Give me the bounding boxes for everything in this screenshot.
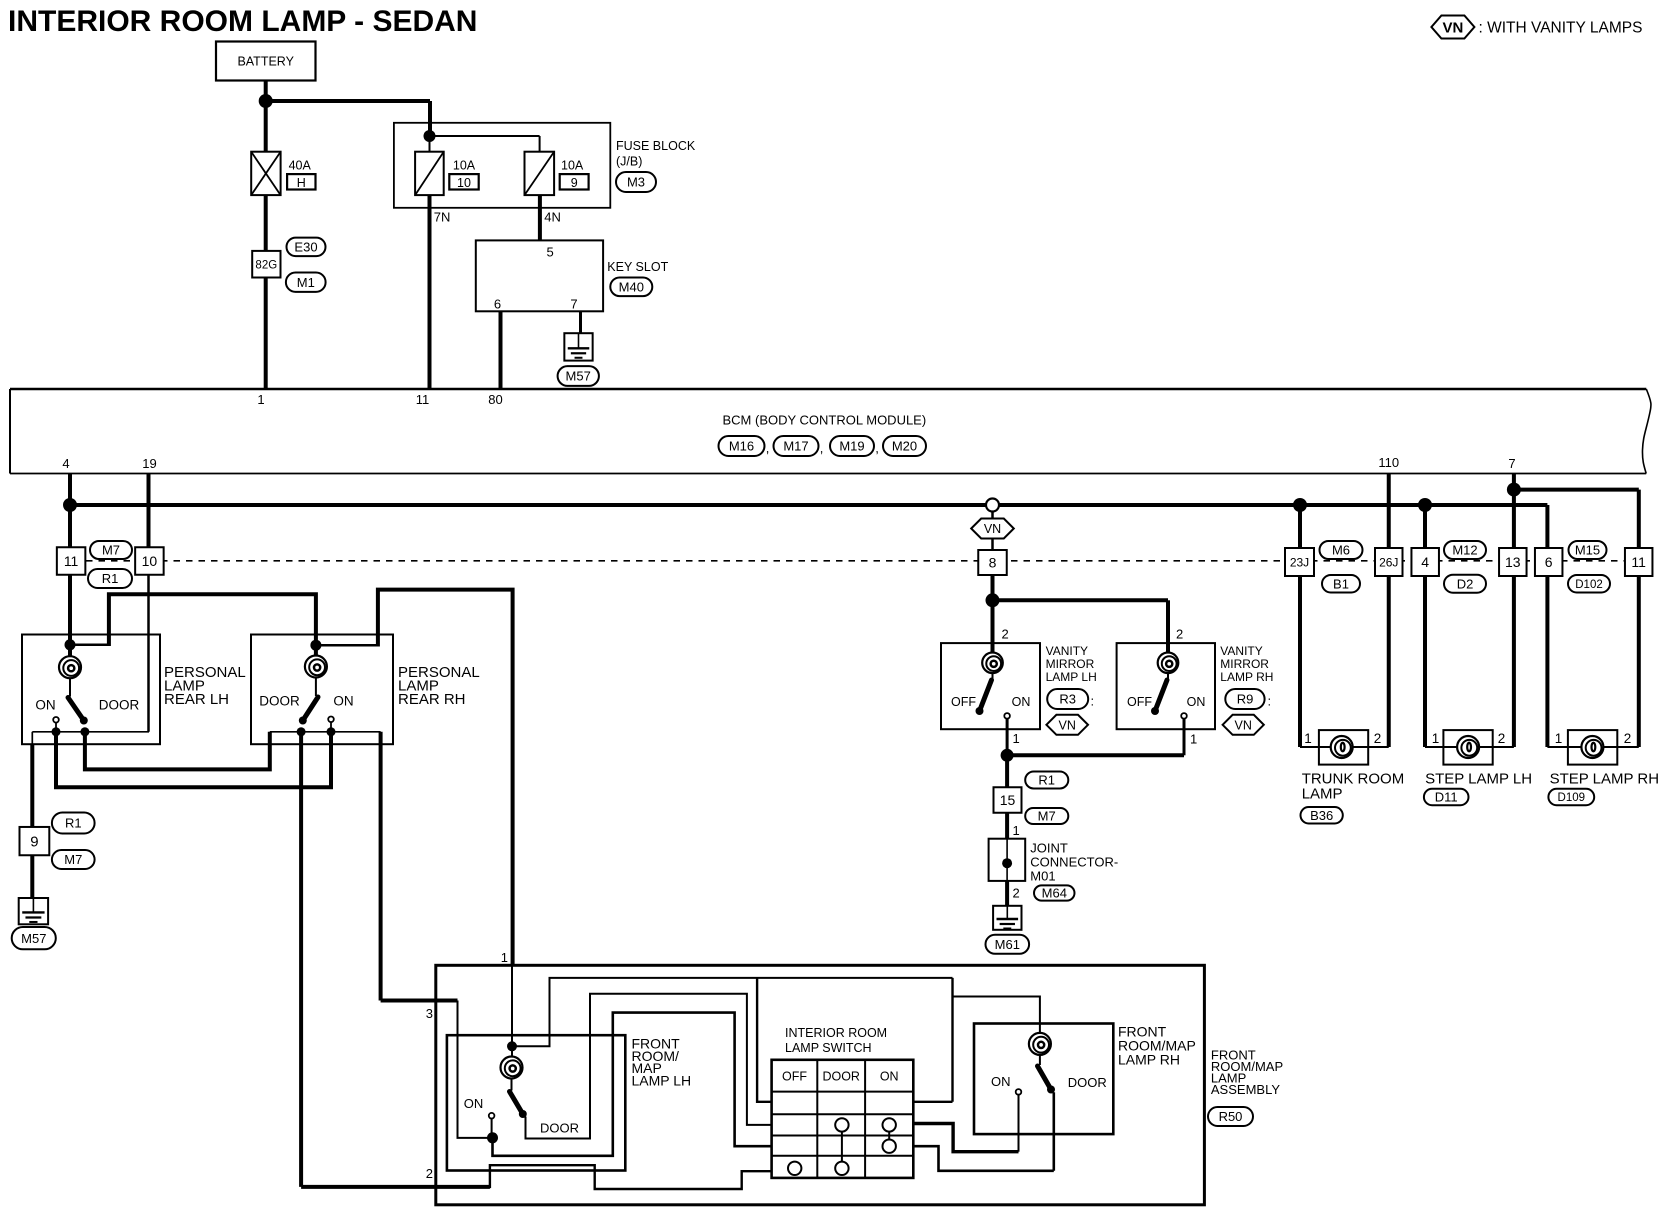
svg-text:MIRROR: MIRROR [1220,657,1269,671]
svg-text:M1: M1 [297,275,315,290]
svg-text:M3: M3 [627,175,645,190]
svg-text:M17: M17 [783,439,808,454]
svg-text:ON: ON [35,698,55,713]
svg-text:LAMP LH: LAMP LH [1046,670,1097,684]
svg-text::: : [1268,694,1272,709]
svg-text:VN: VN [984,522,1001,536]
svg-text:15: 15 [1000,792,1016,808]
svg-text:MIRROR: MIRROR [1046,657,1095,671]
svg-text:M16: M16 [729,439,754,454]
svg-text:B36: B36 [1310,808,1333,823]
svg-text:7: 7 [570,297,577,312]
svg-text:R1: R1 [65,816,82,831]
svg-text:11: 11 [1631,554,1646,570]
svg-text:10: 10 [142,553,158,569]
svg-text:M01: M01 [1030,869,1055,884]
svg-text:4N: 4N [544,210,561,225]
svg-text:M12: M12 [1452,543,1477,558]
svg-text:JOINT: JOINT [1030,841,1068,856]
svg-text:7: 7 [1508,456,1515,471]
svg-text:VN: VN [1059,718,1076,732]
svg-text:ON: ON [1187,695,1206,709]
svg-text:E30: E30 [294,239,317,254]
svg-text:9: 9 [30,834,38,851]
svg-text:OFF: OFF [1127,695,1152,709]
svg-text:1: 1 [1013,731,1020,746]
svg-text:2: 2 [1002,627,1009,642]
svg-text:R1: R1 [1038,773,1055,788]
svg-text:M7: M7 [64,852,82,867]
svg-text:13: 13 [1505,554,1521,570]
svg-text:1: 1 [1432,731,1440,746]
svg-text:ON: ON [464,1096,484,1111]
svg-text:5: 5 [547,245,554,260]
svg-text:2: 2 [1176,627,1183,642]
svg-text:(J/B): (J/B) [616,154,642,168]
svg-text:2: 2 [426,1166,433,1181]
svg-text:CONNECTOR-: CONNECTOR- [1030,855,1118,870]
svg-text:4: 4 [62,456,69,471]
svg-text:R1: R1 [102,571,119,586]
svg-text:BCM (BODY CONTROL MODULE): BCM (BODY CONTROL MODULE) [723,413,927,428]
svg-text:M57: M57 [21,931,46,946]
svg-text:M64: M64 [1042,886,1067,901]
svg-text:LAMP SWITCH: LAMP SWITCH [785,1041,872,1055]
svg-text:M20: M20 [892,439,917,454]
svg-text:10: 10 [457,176,471,190]
svg-text:M40: M40 [619,279,644,294]
svg-text:M7: M7 [1038,809,1056,824]
svg-text:FUSE BLOCK: FUSE BLOCK [616,139,696,153]
svg-text:110: 110 [1378,455,1399,470]
svg-text:VN: VN [1235,718,1252,732]
svg-text:H: H [297,176,306,190]
svg-text:REAR RH: REAR RH [398,691,466,708]
svg-text:R50: R50 [1219,1109,1243,1124]
svg-text:LAMP RH: LAMP RH [1118,1051,1180,1067]
svg-text:M61: M61 [995,937,1020,952]
svg-text:19: 19 [142,456,156,471]
svg-text:11: 11 [416,392,430,407]
svg-text:DOOR: DOOR [259,694,300,709]
svg-text:40A: 40A [289,159,312,173]
svg-text:1: 1 [1013,823,1020,838]
svg-text:D102: D102 [1575,579,1603,591]
svg-text:LAMP RH: LAMP RH [1220,670,1273,684]
svg-text:M57: M57 [566,369,591,384]
svg-text:ON: ON [991,1074,1011,1089]
svg-text:OFF: OFF [782,1069,807,1083]
svg-text:DOOR: DOOR [99,698,140,713]
svg-text:D11: D11 [1435,790,1458,805]
svg-text:9: 9 [571,176,578,190]
svg-text:26J: 26J [1379,555,1398,569]
svg-text:STEP LAMP RH: STEP LAMP RH [1550,770,1659,787]
svg-text:D2: D2 [1457,576,1474,591]
svg-text:10A: 10A [561,159,584,173]
svg-text:6: 6 [1545,554,1553,570]
svg-text:6: 6 [494,297,501,312]
svg-text:R3: R3 [1059,692,1076,707]
svg-text:OFF: OFF [951,695,976,709]
svg-text:4: 4 [1421,554,1429,570]
svg-text:2: 2 [1013,886,1020,901]
svg-text:ASSEMBLY: ASSEMBLY [1211,1082,1280,1097]
svg-text:LAMP LH: LAMP LH [632,1073,692,1089]
svg-text:80: 80 [488,392,502,407]
svg-text:D109: D109 [1558,792,1586,804]
svg-text:VANITY: VANITY [1046,644,1088,658]
svg-text:2: 2 [1374,731,1382,746]
svg-text:DOOR: DOOR [1068,1075,1107,1090]
svg-text:1: 1 [257,392,264,407]
svg-text:DOOR: DOOR [822,1069,860,1083]
svg-text:23J: 23J [1290,555,1309,569]
svg-text:BATTERY: BATTERY [237,55,294,69]
svg-text:3: 3 [426,1006,433,1021]
svg-text::: : [1091,694,1095,709]
svg-text:82G: 82G [255,260,277,272]
svg-text:1: 1 [1555,731,1563,746]
svg-text:,: , [820,441,824,456]
svg-text:R9: R9 [1237,692,1254,707]
svg-text:,: , [766,441,770,456]
svg-text:1: 1 [1190,732,1197,747]
svg-text:,: , [875,441,879,456]
svg-text:: WITH VANITY LAMPS: : WITH VANITY LAMPS [1479,20,1643,37]
svg-text:10A: 10A [453,159,476,173]
svg-text:KEY SLOT: KEY SLOT [607,260,668,274]
svg-text:M6: M6 [1332,543,1350,558]
svg-text:REAR LH: REAR LH [164,691,229,708]
svg-text:STEP LAMP LH: STEP LAMP LH [1425,770,1532,787]
svg-text:VN: VN [1442,19,1463,36]
svg-text:ON: ON [333,694,353,709]
svg-text:M19: M19 [839,439,864,454]
svg-text:DOOR: DOOR [540,1121,579,1136]
svg-text:M7: M7 [102,543,120,558]
svg-text:1: 1 [1304,731,1312,746]
svg-text:1: 1 [501,950,508,965]
svg-text:8: 8 [989,555,997,571]
svg-text:7N: 7N [434,210,451,225]
svg-text:B1: B1 [1333,576,1349,591]
svg-text:11: 11 [64,553,79,569]
svg-text:VANITY: VANITY [1220,644,1262,658]
svg-text:2: 2 [1624,731,1632,746]
svg-text:2: 2 [1498,731,1506,746]
svg-text:ON: ON [1012,695,1031,709]
svg-text:INTERIOR ROOM: INTERIOR ROOM [785,1026,887,1040]
svg-text:LAMP: LAMP [1302,785,1343,802]
svg-text:ON: ON [880,1069,899,1083]
svg-text:INTERIOR ROOM LAMP - SEDAN: INTERIOR ROOM LAMP - SEDAN [8,5,477,38]
svg-text:M15: M15 [1575,543,1600,558]
